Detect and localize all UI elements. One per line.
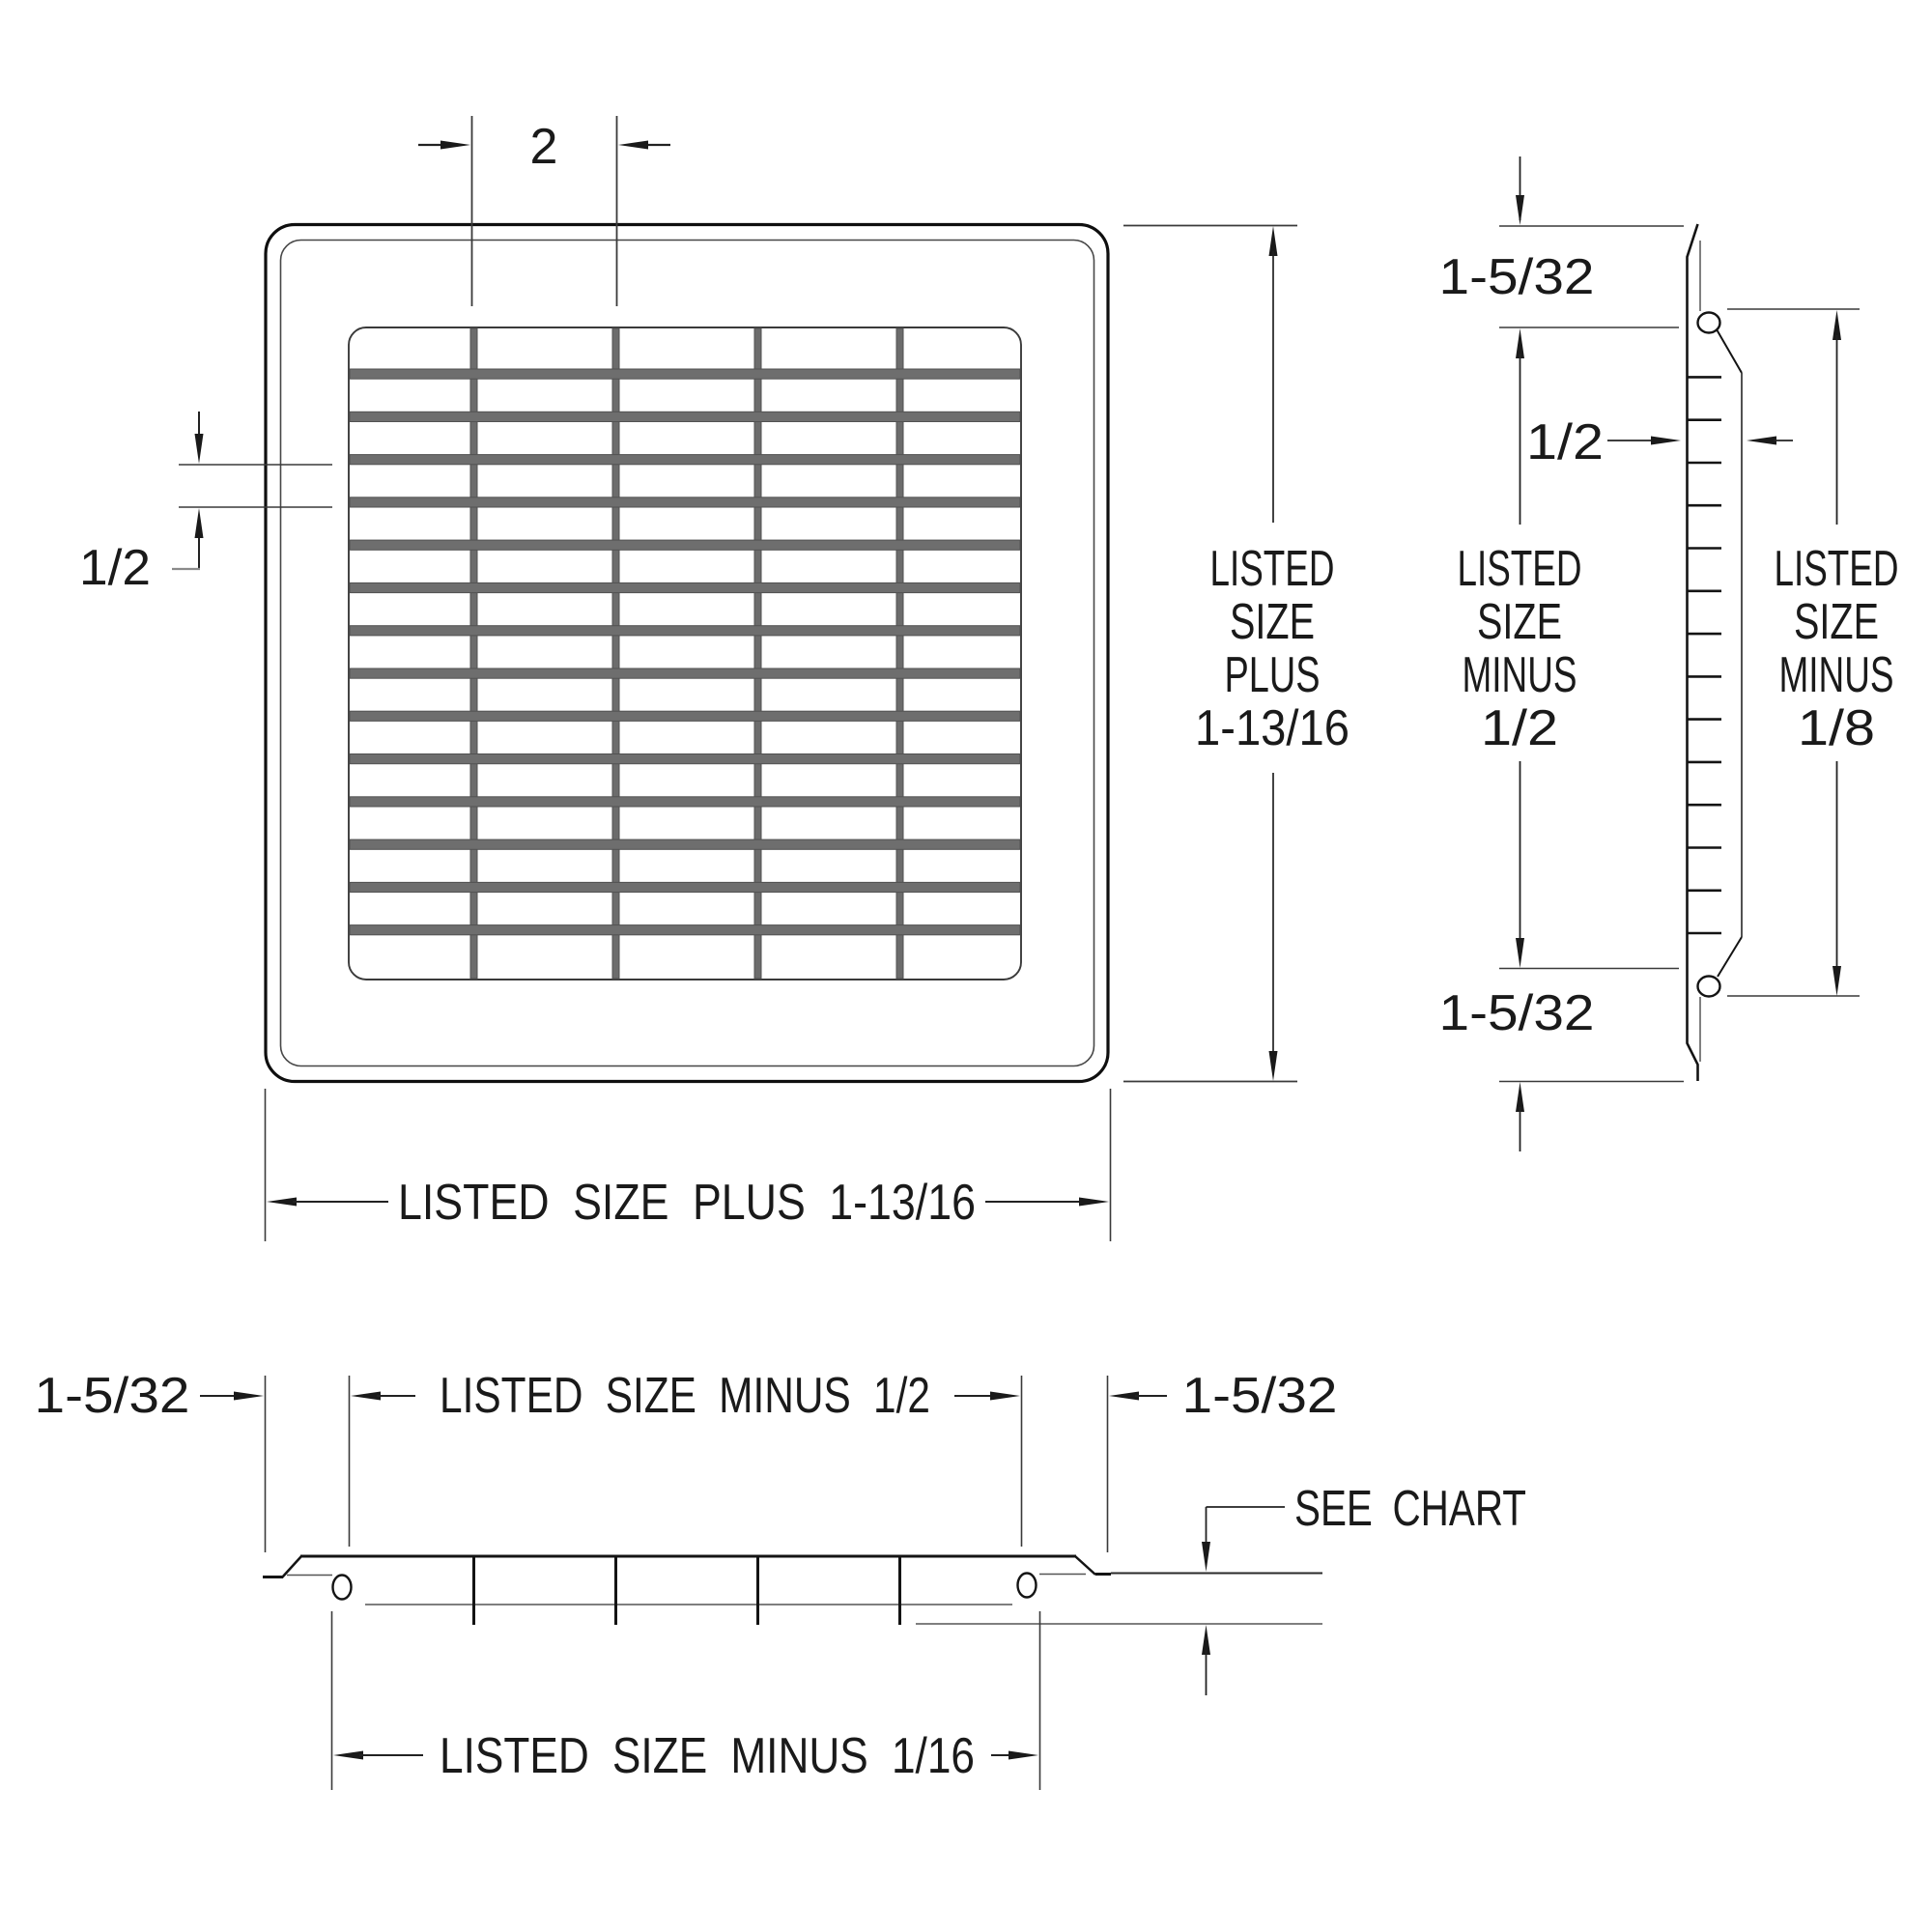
svg-text:1/8: 1/8 (1798, 700, 1875, 756)
dimension listed size plus 1-13/16 vertical: top extension line (1123, 225, 1297, 227)
side view: top chamfer (1717, 329, 1742, 373)
svg-text:1-5/32: 1-5/32 (1439, 985, 1595, 1041)
bottom view: extension line outer left (265, 1376, 267, 1552)
svg-text:SIZE: SIZE (1477, 594, 1562, 650)
see chart dimension: lower arrow (1202, 1625, 1210, 1655)
svg-text:1-5/32: 1-5/32 (1439, 249, 1595, 305)
svg-text:LISTED SIZE PLUS 1-13/16: LISTED SIZE PLUS 1-13/16 (398, 1175, 976, 1231)
bottom view: extension line curl right (1039, 1611, 1041, 1790)
bottom view dimension 1-5/32 left: arrow (200, 1395, 238, 1397)
side view: front face and flanges outer line (1688, 224, 1698, 1081)
svg-text:1-5/32: 1-5/32 (1182, 1368, 1338, 1424)
dimension "1/2" front view: lower arrow (198, 516, 200, 569)
svg-text:MINUS: MINUS (1779, 647, 1894, 703)
dimension listed size plus 1-13/16 vertical: bottom extension line (1123, 1081, 1297, 1083)
svg-text:1/2: 1/2 (1481, 700, 1558, 756)
front view: outer frame (266, 225, 1108, 1082)
svg-text:1/2: 1/2 (79, 540, 151, 596)
see chart dimension: lower extension line (916, 1623, 1322, 1625)
front view: inner frame line (281, 241, 1094, 1066)
svg-text:MINUS: MINUS (1463, 647, 1577, 703)
front view grid: vertical bars (470, 328, 903, 979)
see chart dimension: upper arrow and leader (1206, 1507, 1207, 1547)
bottom view: extension line core right (1021, 1376, 1023, 1547)
side view dimension listed size minus 1/2: lower line and arrow (1520, 761, 1521, 943)
bottom view dimension listed size minus 1/16: right arrow (991, 1754, 1012, 1756)
dimension "2": left extension line (471, 116, 473, 306)
side view: right extension line at curl top (1727, 308, 1860, 310)
bottom view: extension line core left (349, 1376, 351, 1547)
bottom view: top face line (300, 1555, 1076, 1558)
svg-text:LISTED SIZE MINUS 1/2: LISTED SIZE MINUS 1/2 (440, 1368, 930, 1424)
svg-text:SIZE: SIZE (1230, 594, 1315, 650)
bottom view: right curl (1018, 1574, 1037, 1598)
side view depth dimension 1/2: left arrow (1607, 440, 1654, 441)
dimension listed size plus 1-13/16 vertical: lower line and arrow (1272, 773, 1274, 1056)
bottom view: bottom face line (365, 1604, 1012, 1605)
side view: back face line (1741, 373, 1743, 937)
dimension "1/2" front view: lower extension line (179, 506, 332, 508)
dimension listed size plus 1-13/16 vertical: upper line and arrow (1269, 226, 1278, 256)
side view: bottom chamfer (1718, 937, 1742, 977)
side view dimension 1-5/32 top: arrow above (1520, 156, 1521, 220)
dimension "1/2" front view: upper extension line (179, 464, 332, 466)
bottom view dimension listed size minus 1/2: right arrow (954, 1395, 995, 1397)
side view: louver bar ticks (1687, 377, 1721, 933)
dimension listed size plus 1-13/16 horizontal: right arrow and line (985, 1201, 1083, 1203)
bottom view: extension line outer right (1107, 1376, 1109, 1552)
dimension listed size plus 1-13/16 horizontal: right extension line (1110, 1089, 1112, 1241)
svg-text:1-5/32: 1-5/32 (35, 1368, 190, 1424)
side view: extension line at core top (1499, 327, 1679, 328)
dimension listed size plus 1-13/16 horizontal: left extension line (265, 1089, 267, 1241)
bottom view: left curl (333, 1576, 352, 1600)
dimension "1/2" front view: leader (172, 568, 200, 570)
bottom view: right flange underside (1039, 1574, 1086, 1576)
side view: top flange inner line (1699, 241, 1701, 311)
dimension listed size plus 1-13/16 horizontal: left arrow and line (267, 1198, 297, 1207)
svg-text:SEE CHART: SEE CHART (1294, 1481, 1526, 1537)
side view depth dimension 1/2: right arrow (1747, 437, 1776, 445)
bottom view: right flange chamfer (1075, 1556, 1095, 1575)
svg-text:LISTED SIZE MINUS 1/16: LISTED SIZE MINUS 1/16 (440, 1728, 975, 1784)
svg-text:2: 2 (530, 119, 558, 175)
svg-text:1-13/16: 1-13/16 (1195, 700, 1350, 756)
svg-text:LISTED: LISTED (1458, 541, 1582, 597)
bottom view: extension line curl left (331, 1611, 333, 1790)
side view: bottom flange inner line (1699, 997, 1701, 1062)
dimension "1/2" front view: upper arrow (198, 412, 200, 457)
side view: bottom curl (1698, 977, 1720, 997)
side view: extension line at frame top (1499, 225, 1684, 227)
svg-text:LISTED: LISTED (1210, 541, 1335, 597)
bottom view: vertical bar ticks (474, 1557, 900, 1625)
dimension "2": right arrow (642, 144, 670, 146)
dimension "2": left arrow (418, 144, 446, 146)
side view: top curl (1698, 313, 1720, 333)
bottom view: left flange chamfer (282, 1556, 301, 1577)
side view: extension line at frame bottom (1499, 1081, 1684, 1083)
front view grid: horizontal louver bars (350, 369, 1020, 935)
side view dimension 1-5/32 bottom: arrow below (1516, 1082, 1524, 1112)
svg-text:LISTED: LISTED (1775, 541, 1899, 597)
svg-text:SIZE: SIZE (1794, 594, 1879, 650)
bottom view dimension listed size minus 1/2: left arrow (351, 1392, 381, 1401)
svg-text:1/2: 1/2 (1526, 414, 1604, 470)
bottom view: right flange tip (1095, 1573, 1111, 1576)
side view dimension listed size minus 1/8: lower line and arrow (1836, 761, 1838, 971)
front view: grid core border (349, 327, 1021, 980)
side view dimension listed size minus 1/8: upper arrow (1833, 310, 1841, 340)
side view dimension listed size minus 1/2: upper arrow (1516, 328, 1524, 358)
bottom view dimension listed size minus 1/16: left arrow (333, 1751, 363, 1760)
side view: extension line at core bottom (1499, 968, 1679, 970)
bottom view dimension 1-5/32 right: arrow (1109, 1392, 1139, 1401)
side view: right extension line at curl bottom (1727, 995, 1860, 997)
svg-text:PLUS: PLUS (1225, 647, 1321, 703)
see chart dimension: upper extension line (1111, 1573, 1322, 1575)
bottom view: left flange underside (287, 1575, 332, 1577)
bottom view: left flange tip (263, 1576, 283, 1578)
dimension "2": right extension line (616, 116, 618, 306)
